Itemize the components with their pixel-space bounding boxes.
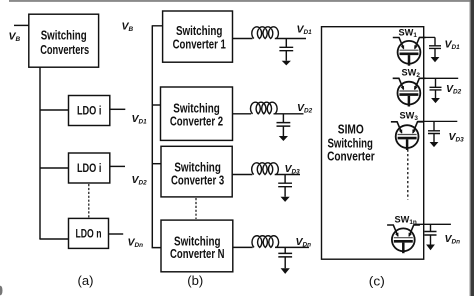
capacitor CN (b) <box>278 247 292 274</box>
svg-text:(a): (a) <box>78 274 94 288</box>
svg-text:Switching: Switching <box>41 28 87 43</box>
transistor SW2 <box>393 78 426 106</box>
transistor SW3 <box>391 122 424 150</box>
inductor L3 <box>252 163 279 175</box>
svg-text:Converter 1: Converter 1 <box>173 37 226 52</box>
svg-text:LDO n: LDO n <box>76 228 102 241</box>
capacitor C1 (b) <box>279 39 293 66</box>
wire branch to LDO1 <box>40 109 69 111</box>
transistor SW1n <box>387 225 420 253</box>
wire SC3 output <box>232 174 300 176</box>
wire branch to LDO2 <box>40 167 69 169</box>
svg-text:SIMO: SIMO <box>338 122 364 137</box>
svg-text:(c): (c) <box>369 275 385 289</box>
wire SC2 output <box>233 113 304 115</box>
capacitor Cn (c) <box>425 224 437 250</box>
wire SW1n output <box>414 223 451 225</box>
wire SCN output <box>233 246 309 248</box>
capacitor C2 (c) <box>430 78 442 103</box>
wire SC1 output <box>233 38 307 40</box>
inductor L1 <box>252 27 279 39</box>
wire branch to SC3 <box>152 163 161 165</box>
capacitor C1 (c) <box>429 37 441 62</box>
wire LDOn output <box>109 233 124 235</box>
wire SW3 output <box>418 120 458 122</box>
wire branch to LDOn <box>39 238 68 240</box>
block Switching Converter N <box>161 220 233 272</box>
block Switching Converter 2 <box>161 87 233 140</box>
svg-text:LDO i: LDO i <box>77 162 102 175</box>
svg-text:Converter N: Converter N <box>170 246 225 261</box>
svg-text:(b): (b) <box>187 274 203 288</box>
block SIMO Switching Converter <box>322 27 424 260</box>
node VB input (a) <box>14 24 29 26</box>
svg-text:Converters: Converters <box>40 42 89 57</box>
wire LDO2 output <box>110 165 125 167</box>
wire branch to SC2 <box>152 104 160 106</box>
dashed continuation (b) <box>195 198 197 219</box>
block LDO i (1) <box>69 96 110 126</box>
wire SW1 output <box>419 36 435 38</box>
dashed continuation (a) <box>88 184 90 218</box>
block Switching Converters <box>29 14 99 67</box>
svg-text:Converter: Converter <box>327 148 375 163</box>
svg-text:Converter 3: Converter 3 <box>171 173 224 188</box>
transistor SW1 <box>393 38 426 66</box>
block Switching Converter 1 <box>163 11 233 62</box>
svg-text:Converter 2: Converter 2 <box>170 114 223 129</box>
capacitor C3 (c) <box>428 121 440 147</box>
wire bus (a) <box>39 67 41 239</box>
wire SW2 output <box>419 77 458 79</box>
wire bus (b) with stub to SC1 and branch to SCN <box>152 26 163 248</box>
capacitor C2 (b) <box>277 114 291 141</box>
dashed continuation (c) <box>407 150 409 200</box>
capacitor C3 (b) <box>278 175 292 202</box>
block Switching Converter 3 <box>161 146 232 197</box>
svg-text:LDO i: LDO i <box>77 105 102 118</box>
inductor LN <box>252 236 279 248</box>
block LDO i (2) <box>69 153 110 183</box>
inductor L2 <box>251 102 278 114</box>
block LDO n <box>69 218 109 248</box>
wire LDO1 output <box>110 108 126 110</box>
